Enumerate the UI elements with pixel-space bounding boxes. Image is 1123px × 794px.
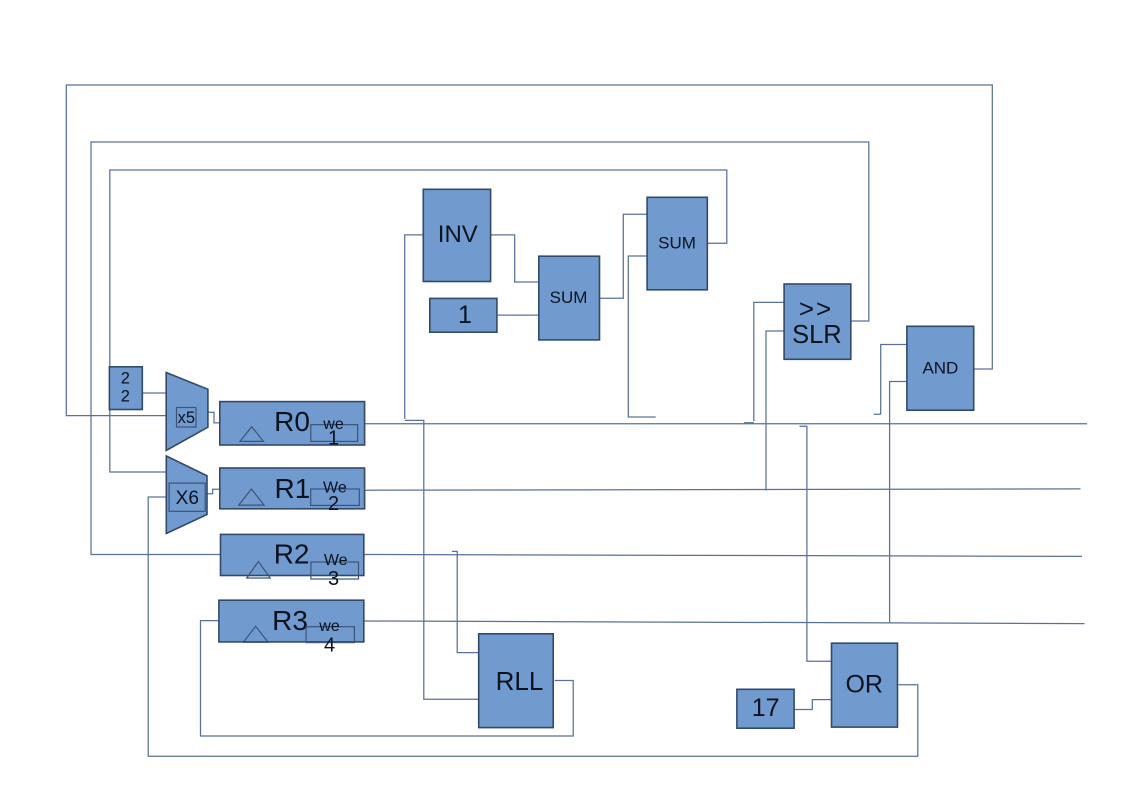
constant box 2 2 [109, 367, 142, 410]
wire const1 to SUM1 input 2 [498, 314, 540, 316]
wire R1 output bus [365, 489, 1081, 490]
svg-text:>>: >> [799, 293, 833, 323]
svg-text:SUM: SUM [550, 288, 588, 307]
wire R3 output bus [364, 621, 1085, 624]
svg-text:1: 1 [458, 301, 472, 329]
block SUM lower [539, 256, 600, 340]
svg-text:2: 2 [328, 493, 339, 515]
block RLL rotate [479, 634, 554, 728]
block SLR shifter [784, 284, 851, 359]
svg-text:X6: X6 [176, 488, 199, 509]
wire SLR input 2 from R1 bus [766, 331, 784, 491]
wire OR output feedback loop to mux X6 input 2 [148, 497, 918, 756]
select box x5 [177, 408, 197, 428]
we box 3 [311, 552, 359, 590]
svg-text:4: 4 [324, 634, 335, 656]
svg-text:R1: R1 [275, 473, 311, 504]
wire R2 output bus [364, 555, 1082, 557]
register R3 [219, 600, 364, 642]
clock triangle R1 [239, 489, 264, 505]
wire const17 to OR input 2 [794, 700, 832, 710]
block OR [832, 643, 898, 727]
svg-text:AND: AND [922, 359, 958, 378]
svg-text:R2: R2 [274, 539, 310, 570]
wire SLR input 1 from R0 bus [744, 302, 784, 422]
svg-text:INV: INV [438, 221, 478, 248]
block INV [423, 189, 490, 281]
clock triangle R0 [240, 427, 263, 442]
register R2 [221, 534, 364, 575]
block SUM upper [647, 197, 707, 289]
svg-text:3: 3 [328, 568, 339, 590]
wire SUM1 output to SUM2 input 1 [600, 214, 648, 298]
svg-text:R0: R0 [274, 406, 310, 437]
wire INV output to SUM1 input 1 [491, 235, 540, 282]
we box 1 [311, 416, 358, 450]
wire tap from R2 bus to RLL input 1 [452, 551, 479, 652]
wire AND input 2 from R3 bus [890, 382, 907, 624]
we box 4 [306, 618, 354, 656]
wire mux X6 output to R1 input [207, 489, 220, 494]
svg-text:we: we [318, 618, 340, 635]
we box 2 [311, 480, 360, 516]
wire R0 bus down to RLL input 2 [405, 420, 479, 699]
wire AND output feedback loop to mux x5 input [66, 85, 992, 416]
clock triangle R2 [247, 562, 271, 579]
block AND [907, 326, 974, 410]
svg-text:R3: R3 [272, 605, 308, 636]
svg-text:We: We [324, 552, 348, 569]
wire AND input 1 from R0 bus [874, 345, 907, 415]
wire RLL output feedback loop to R3 input [201, 621, 574, 736]
svg-text:RLL: RLL [496, 666, 544, 696]
mux x5 [166, 373, 208, 451]
wire SUM2 input 2 from R0 bus [628, 256, 655, 417]
svg-text:x5: x5 [178, 409, 195, 427]
svg-text:2: 2 [121, 387, 130, 405]
svg-text:SUM: SUM [658, 234, 696, 253]
wire INV input from R0 bus [405, 235, 424, 419]
register R1 [220, 468, 365, 509]
wire mux x5 output to R0 input [208, 412, 220, 423]
constant box 17 [737, 689, 794, 728]
register R0 [220, 402, 365, 445]
svg-text:SLR: SLR [792, 321, 842, 349]
svg-text:2: 2 [121, 369, 130, 387]
select box X6 [169, 483, 205, 511]
constant box 1 [430, 298, 497, 332]
svg-text:OR: OR [845, 670, 883, 698]
clock triangle R3 [243, 626, 268, 642]
wire const22 to mux x5 input 1 [142, 392, 166, 394]
wire SUM2 output feedback loop to mux X6 input 1 [110, 170, 727, 472]
wire tap from R0 bus to OR input 1 [800, 426, 832, 661]
mux X6 [166, 456, 207, 534]
svg-text:1: 1 [328, 428, 339, 450]
wire SLR output feedback loop to R2 input [91, 142, 869, 555]
svg-text:17: 17 [752, 694, 780, 722]
wire R0 output bus [365, 423, 1087, 425]
